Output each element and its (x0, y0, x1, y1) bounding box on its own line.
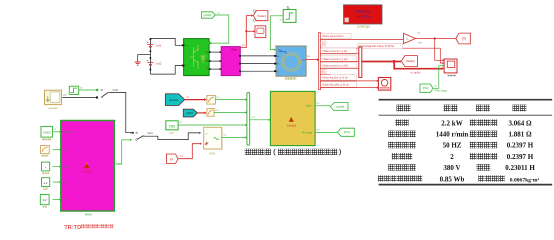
svg-text:10000: 10000 (43, 131, 51, 135)
svg-text:TR:TD: TR:TD (64, 225, 81, 231)
svg-text:wr: wr (111, 165, 114, 168)
svg-text:0.2: 0.2 (43, 198, 47, 202)
svg-text:psir*: psir* (170, 132, 175, 135)
svg-text:[n]: [n] (462, 37, 466, 41)
svg-text:50 HZ: 50 HZ (443, 142, 462, 150)
svg-text:[Vabc]: [Vabc] (186, 111, 193, 115)
svg-text:n*: n* (206, 133, 208, 135)
svg-text:<Stator current is_a (A): <Stator current is_a (A) (322, 50, 347, 53)
svg-text:0.85: 0.85 (169, 125, 176, 129)
svg-text:Cont: Cont (63, 93, 68, 96)
svg-text:0.0067kg·m²: 0.0067kg·m² (510, 177, 540, 183)
svg-text:TIME_Tor: TIME_Tor (63, 131, 73, 134)
svg-text:B: B (206, 59, 208, 63)
svg-text:-K-: -K- (406, 39, 409, 41)
svg-text:[Isabc]: [Isabc] (406, 59, 415, 63)
svg-text:speed2: speed2 (48, 106, 58, 110)
svg-text:[b]: [b] (322, 44, 325, 46)
svg-text:powergui: powergui (357, 25, 370, 29)
svg-text:TD: TD (63, 200, 66, 202)
svg-text:pulse: pulse (306, 105, 313, 108)
svg-text:Control: Control (287, 123, 297, 127)
svg-text:0.2397 H: 0.2397 H (507, 142, 534, 150)
svg-text:1.881 Ω: 1.881 Ω (508, 131, 532, 139)
svg-text:<Phir_mag>: <Phir_mag> (434, 90, 448, 93)
svg-text:380 V: 380 V (443, 164, 460, 172)
svg-text:<Rotor flux phir_d (V s)>: <Rotor flux phir_d (V s)> (322, 77, 349, 80)
svg-text:n_ref: n_ref (63, 149, 69, 152)
svg-text:÷: ÷ (45, 165, 47, 169)
svg-text:Te_ref: Te_ref (63, 166, 70, 169)
svg-text:0.2: 0.2 (44, 181, 48, 185)
svg-text:Electromagnetic torque Te (N*m: Electromagnetic torque Te (N*m) (359, 45, 394, 48)
svg-text:Ud1: Ud1 (156, 43, 162, 47)
svg-text:A: A (206, 50, 208, 54)
svg-text:C: C (206, 67, 208, 71)
svg-text:1440 r/min: 1440 r/min (436, 131, 469, 139)
svg-text:1e-05 s.: 1e-05 s. (357, 14, 371, 19)
svg-text:Cont: Cont (147, 132, 153, 135)
svg-text:[pulse]: [pulse] (336, 105, 344, 109)
svg-text:Vabc: Vabc (231, 48, 238, 52)
svg-text:<Stator current is_b (A)>: <Stator current is_b (A)> (322, 58, 349, 61)
svg-text:[Isabc]: [Isabc] (169, 98, 178, 102)
svg-text:TC_MRAS: TC_MRAS (81, 171, 92, 174)
svg-text:<Rotor speed (wm)>: <Rotor speed (wm)> (322, 35, 345, 38)
svg-text:-: - (186, 65, 187, 68)
svg-text:[Phir]: [Phir] (344, 130, 350, 134)
svg-text:[pulse]: [pulse] (204, 13, 212, 17)
svg-text:[n]: [n] (170, 157, 174, 161)
svg-text:ASR: ASR (209, 151, 216, 155)
svg-text:2: 2 (450, 153, 454, 161)
svg-text:Cont: Cont (113, 89, 119, 92)
svg-text:[b]: [b] (322, 72, 325, 74)
svg-text:Ud2: Ud2 (156, 61, 162, 65)
svg-text:<Stator flux phis_q (V s)>: <Stator flux phis_q (V s)> (322, 84, 350, 87)
svg-text:[Vabc]: [Vabc] (257, 14, 266, 18)
svg-text:2.2 kW: 2.2 kW (441, 119, 462, 127)
svg-text:TR: TR (63, 182, 66, 184)
svg-text:Phi_mag: Phi_mag (302, 132, 312, 135)
svg-text:is_ab(A): is_ab(A) (411, 71, 421, 75)
svg-text:0.85 Wb: 0.85 Wb (440, 175, 465, 183)
svg-text:<Stator current is_c (A)>: <Stator current is_c (A)> (322, 65, 349, 68)
svg-text:0.2397 H: 0.2397 H (507, 153, 534, 161)
svg-text:0.23011 H: 0.23011 H (505, 164, 535, 172)
svg-text:TL: TL (286, 6, 290, 10)
svg-text:[Phir]: [Phir] (423, 87, 429, 90)
svg-text:MRAS: MRAS (85, 214, 93, 217)
svg-text:3.064 Ω: 3.064 Ω (508, 119, 532, 127)
